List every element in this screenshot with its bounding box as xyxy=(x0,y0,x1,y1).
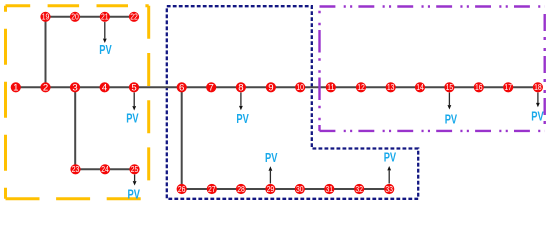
svg-text:11: 11 xyxy=(327,82,335,92)
wire 21-22 xyxy=(105,16,134,18)
svg-text:PV: PV xyxy=(265,151,278,165)
svg-text:PV: PV xyxy=(126,111,139,125)
wire 2-19 vertical xyxy=(45,17,47,88)
wire 11-12 xyxy=(331,86,361,88)
wire 16-17 xyxy=(479,86,508,88)
wire 19-20 xyxy=(46,16,76,18)
svg-text:23: 23 xyxy=(72,164,80,174)
svg-text:16: 16 xyxy=(475,82,483,92)
svg-text:PV: PV xyxy=(128,188,141,202)
svg-text:31: 31 xyxy=(326,184,334,194)
svg-text:32: 32 xyxy=(355,184,363,194)
bus 21 xyxy=(100,12,110,22)
PV arrow at bus 29 (up) xyxy=(269,166,273,183)
PV arrow at bus 25 (down) xyxy=(133,175,137,186)
wire 4-5 xyxy=(105,86,134,88)
svg-text:6: 6 xyxy=(179,83,184,94)
bus 24 xyxy=(100,164,110,174)
bus 31 xyxy=(324,184,334,194)
svg-text:12: 12 xyxy=(357,82,365,92)
svg-text:26: 26 xyxy=(178,184,186,194)
bus 16 xyxy=(474,82,484,92)
PV arrow at bus 8 (down) xyxy=(239,93,243,111)
wire 27-28 xyxy=(212,188,241,190)
svg-text:27: 27 xyxy=(208,184,216,194)
bus 11 xyxy=(326,82,336,92)
bus 33 xyxy=(384,184,394,194)
wire 2-3 xyxy=(46,86,76,88)
wire 6-7 xyxy=(182,86,212,88)
wire 15-16 xyxy=(449,86,478,88)
svg-text:2: 2 xyxy=(43,83,48,94)
bus 17 xyxy=(503,82,513,92)
wire 31-32 xyxy=(329,188,359,190)
svg-text:1: 1 xyxy=(13,83,18,94)
bus 15 xyxy=(444,82,454,92)
wire 8-9 xyxy=(241,86,271,88)
bus 7 xyxy=(206,82,216,93)
bus 25 xyxy=(129,164,139,174)
svg-text:8: 8 xyxy=(238,83,243,94)
svg-text:28: 28 xyxy=(237,184,245,194)
svg-text:17: 17 xyxy=(504,82,512,92)
svg-text:10: 10 xyxy=(296,82,304,92)
bus 12 xyxy=(356,82,366,92)
svg-text:PV: PV xyxy=(99,43,112,57)
wire 14-15 xyxy=(420,86,449,88)
bus 2 xyxy=(40,82,50,93)
bus 28 xyxy=(236,184,246,194)
bus 18 xyxy=(533,82,543,92)
bus 22 xyxy=(129,12,139,22)
svg-text:4: 4 xyxy=(102,83,108,94)
bus 19 xyxy=(40,12,50,22)
svg-text:25: 25 xyxy=(131,164,139,174)
bus 4 xyxy=(100,82,110,93)
zone 1 boundary (yellow dashed box, buses 1-5, 19-25) xyxy=(6,6,149,199)
wire 24-25 xyxy=(105,168,135,170)
svg-text:22: 22 xyxy=(130,12,138,22)
svg-text:13: 13 xyxy=(387,82,395,92)
wire 20-21 xyxy=(75,16,105,18)
PV arrow at bus 33 (up) xyxy=(387,166,391,184)
svg-text:20: 20 xyxy=(71,12,79,22)
wire 26-27 xyxy=(182,188,212,190)
wire 23-24 xyxy=(76,168,106,170)
bus 27 xyxy=(207,184,217,194)
bus 14 xyxy=(415,82,425,92)
PV arrow at bus 5 (down) xyxy=(132,93,136,111)
svg-text:15: 15 xyxy=(446,82,454,92)
zone 2 boundary (navy dotted stepped box, buses 6-10, 26-33) xyxy=(167,6,418,199)
bus 26 xyxy=(177,184,187,194)
svg-text:3: 3 xyxy=(72,83,77,94)
PV arrow at bus 21 (down) xyxy=(103,22,107,43)
svg-text:21: 21 xyxy=(101,12,109,22)
PV arrow at bus 18 (down) xyxy=(536,93,540,108)
wire 10-11 xyxy=(300,86,331,88)
svg-text:33: 33 xyxy=(385,184,393,194)
wire 1-2 xyxy=(16,86,46,88)
bus 32 xyxy=(354,184,364,194)
wire 7-8 xyxy=(211,86,241,88)
wire 17-18 xyxy=(508,86,538,88)
bus 30 xyxy=(295,184,305,194)
zone 3 boundary (purple dash-dot box, buses 11-18) xyxy=(320,7,545,131)
svg-text:9: 9 xyxy=(268,83,273,94)
wire 9-10 xyxy=(271,86,300,88)
wire 6-26 vertical xyxy=(181,87,183,189)
bus 20 xyxy=(70,12,80,22)
bus 29 xyxy=(265,184,275,194)
svg-text:19: 19 xyxy=(42,12,50,22)
PV arrow at bus 15 (down) xyxy=(448,93,452,110)
svg-text:PV: PV xyxy=(384,151,397,165)
wire 29-30 xyxy=(270,188,299,190)
wire 3-4 xyxy=(75,86,105,88)
bus 13 xyxy=(386,82,396,92)
svg-text:24: 24 xyxy=(101,164,109,174)
svg-text:7: 7 xyxy=(209,83,214,94)
bus 9 xyxy=(266,82,276,93)
svg-text:PV: PV xyxy=(236,112,249,126)
bus 10 xyxy=(295,82,305,92)
bus 6 xyxy=(177,82,187,93)
svg-text:PV: PV xyxy=(531,109,544,123)
svg-text:5: 5 xyxy=(131,83,136,94)
wire 28-29 xyxy=(241,188,270,190)
bus 5 xyxy=(129,82,139,93)
wire 13-14 xyxy=(391,86,420,88)
bus 8 xyxy=(236,82,246,93)
wire 30-31 xyxy=(300,188,330,190)
wire 5-6 xyxy=(134,86,182,88)
wire 12-13 xyxy=(361,86,391,88)
wire 32-33 xyxy=(359,188,389,190)
svg-text:18: 18 xyxy=(534,82,542,92)
svg-text:30: 30 xyxy=(296,184,304,194)
wire 3-23 vertical xyxy=(74,87,76,169)
bus 1 xyxy=(11,82,21,93)
bus 3 xyxy=(70,82,80,93)
svg-text:14: 14 xyxy=(416,82,424,92)
bus 23 xyxy=(70,164,80,174)
svg-text:PV: PV xyxy=(445,112,458,126)
svg-text:29: 29 xyxy=(267,184,275,194)
